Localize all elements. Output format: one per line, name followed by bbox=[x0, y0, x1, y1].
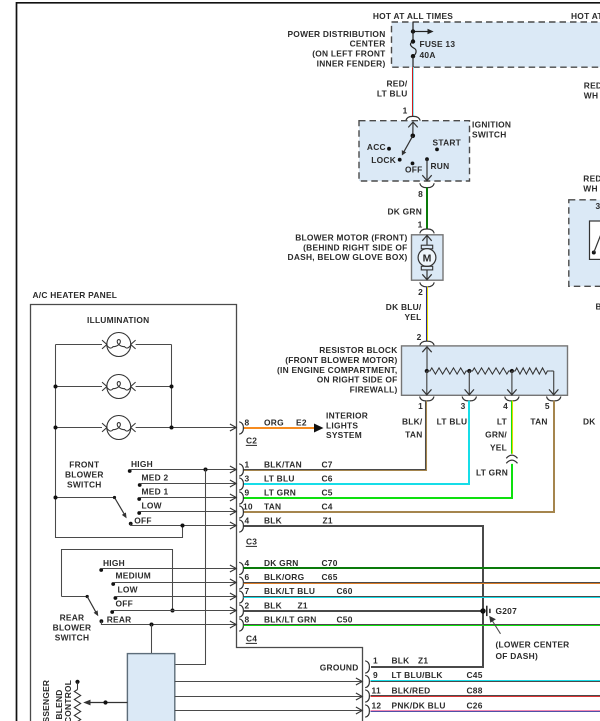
svg-text:BLK/RED: BLK/RED bbox=[392, 685, 431, 695]
wire DK GRN ignition to blower motor bbox=[426, 187, 428, 229]
svg-text:HIGH: HIGH bbox=[103, 558, 125, 568]
contact ACC bbox=[367, 142, 391, 152]
svg-text:BLK: BLK bbox=[392, 656, 410, 666]
svg-text:C65: C65 bbox=[322, 572, 338, 582]
rear switch feed rail bbox=[62, 550, 173, 611]
svg-text:WH: WH bbox=[584, 91, 598, 101]
contact LOCK bbox=[371, 155, 401, 165]
motor terminal arrow down bbox=[422, 270, 431, 280]
svg-text:12: 12 bbox=[372, 700, 382, 710]
svg-text:11: 11 bbox=[372, 685, 381, 695]
svg-text:INTERIOR: INTERIOR bbox=[326, 411, 368, 421]
svg-text:Z1: Z1 bbox=[418, 656, 428, 666]
svg-text:1: 1 bbox=[373, 656, 378, 666]
connector C2 label bbox=[246, 436, 257, 446]
wire label BLK/TAN pin1 bbox=[402, 417, 423, 440]
motor brush top bbox=[421, 245, 432, 249]
svg-text:SWITCH: SWITCH bbox=[472, 130, 507, 140]
ground connector pin labels bbox=[372, 656, 483, 711]
rear blower switch label bbox=[53, 612, 92, 642]
svg-text:BLK/ORG: BLK/ORG bbox=[264, 572, 304, 582]
fuse F13 label bbox=[420, 39, 456, 60]
svg-text:PASSENGER: PASSENGER bbox=[41, 680, 51, 721]
relay switch contact bbox=[592, 233, 600, 255]
svg-text:TAN: TAN bbox=[530, 417, 547, 427]
connector C3 label bbox=[246, 537, 257, 547]
arrows into C3 pins bbox=[230, 466, 236, 529]
svg-text:1: 1 bbox=[418, 401, 423, 411]
ground location callout bbox=[489, 616, 569, 661]
svg-text:(LOWER CENTER: (LOWER CENTER bbox=[496, 639, 570, 649]
relay inner switch box bbox=[590, 221, 600, 259]
passenger blend control label bbox=[41, 680, 73, 721]
arrow into C2 pin8 bbox=[230, 424, 236, 431]
contact START bbox=[433, 137, 462, 151]
svg-text:LT GRN: LT GRN bbox=[264, 487, 296, 497]
svg-text:FRONT: FRONT bbox=[69, 459, 100, 469]
svg-text:Z1: Z1 bbox=[298, 600, 308, 610]
resistor output arrow pin 1 bbox=[422, 371, 431, 395]
fuse F13 element bbox=[410, 39, 416, 67]
svg-text:INNER FENDER): INNER FENDER) bbox=[317, 58, 386, 68]
svg-text:DK GRN: DK GRN bbox=[264, 558, 299, 568]
svg-text:3: 3 bbox=[461, 401, 466, 411]
connector arc at resistor pin 2 bbox=[420, 341, 434, 345]
connector arc at motor pin 2 bbox=[420, 282, 434, 286]
svg-text:HOT AT ALL TIMES: HOT AT ALL TIMES bbox=[373, 11, 453, 21]
wire fuse feed bbox=[412, 22, 414, 42]
svg-text:CONTROL: CONTROL bbox=[63, 680, 73, 721]
front switch pivot feed wire bbox=[56, 497, 115, 499]
svg-text:1: 1 bbox=[418, 220, 423, 230]
svg-text:ORG: ORG bbox=[264, 417, 284, 427]
svg-text:DASH, BELOW GLOVE BOX): DASH, BELOW GLOVE BOX) bbox=[288, 252, 408, 262]
svg-text:HIGH: HIGH bbox=[131, 459, 153, 469]
wire BLK/LT GRN C50 bbox=[244, 625, 600, 626]
front switch contact MED 2 bbox=[138, 472, 236, 487]
svg-text:8: 8 bbox=[245, 417, 250, 427]
svg-text:ILLUMINATION: ILLUMINATION bbox=[87, 315, 149, 325]
svg-text:9: 9 bbox=[373, 670, 378, 680]
svg-text:C70: C70 bbox=[322, 558, 338, 568]
svg-text:DK BLU/: DK BLU/ bbox=[386, 302, 422, 312]
svg-text:LT BLU: LT BLU bbox=[377, 89, 408, 99]
svg-text:LT: LT bbox=[497, 417, 508, 427]
wire PNK/DK BLU C26 bbox=[371, 711, 600, 712]
relay box right edge clipped bbox=[569, 200, 600, 286]
resistor R1 bbox=[427, 368, 470, 374]
svg-text:LT BLU: LT BLU bbox=[437, 417, 468, 427]
ignition switch box U1 bbox=[359, 121, 470, 181]
svg-text:RED/: RED/ bbox=[386, 79, 407, 89]
wire LT BLU/BLK C45 bbox=[371, 681, 600, 682]
wire TAN resistor to C3 pin10 bbox=[244, 401, 555, 512]
connector arcs ground connector bbox=[365, 661, 369, 717]
svg-text:SYSTEM: SYSTEM bbox=[326, 430, 362, 440]
motor terminal arrow up bbox=[422, 235, 431, 245]
blower motor M1 box bbox=[412, 235, 444, 280]
svg-text:8: 8 bbox=[418, 189, 423, 199]
svg-text:3: 3 bbox=[245, 473, 250, 483]
svg-text:(ON LEFT FRONT: (ON LEFT FRONT bbox=[312, 49, 386, 59]
svg-text:C2: C2 bbox=[246, 436, 257, 446]
power distribution center box bbox=[392, 22, 600, 67]
front switch contact HIGH bbox=[128, 459, 236, 473]
svg-text:C26: C26 bbox=[467, 700, 483, 710]
svg-text:4: 4 bbox=[245, 558, 250, 568]
svg-text:C88: C88 bbox=[467, 685, 483, 695]
resistor pin labels 1 3 4 5 bbox=[418, 401, 550, 411]
svg-text:G207: G207 bbox=[496, 606, 518, 616]
svg-text:BLOWER MOTOR (FRONT): BLOWER MOTOR (FRONT) bbox=[295, 233, 407, 243]
node HIGH tap junction bbox=[204, 468, 208, 472]
resistor R3 bbox=[512, 368, 551, 374]
front switch contact MED 1 bbox=[137, 486, 236, 501]
svg-text:TAN: TAN bbox=[264, 501, 281, 511]
node resistor junction B bbox=[467, 369, 471, 373]
svg-text:REAR: REAR bbox=[107, 614, 132, 624]
node OFF ground loop junction bbox=[181, 524, 185, 528]
svg-text:(BEHIND RIGHT SIDE OF: (BEHIND RIGHT SIDE OF bbox=[303, 242, 407, 252]
lamp L2 bbox=[102, 375, 136, 399]
svg-text:LOCK: LOCK bbox=[371, 155, 396, 165]
svg-text:IGNITION: IGNITION bbox=[472, 120, 511, 130]
connector arcs C4 bbox=[239, 562, 243, 631]
lamp row 2 wires bbox=[56, 386, 172, 388]
svg-text:BLK/LT GRN: BLK/LT GRN bbox=[264, 614, 317, 624]
svg-text:POWER DISTRIBUTION: POWER DISTRIBUTION bbox=[287, 29, 385, 39]
svg-text:OFF: OFF bbox=[405, 165, 423, 175]
svg-text:BLK: BLK bbox=[264, 600, 282, 610]
svg-text:TAN: TAN bbox=[405, 430, 422, 440]
rear switch lever bbox=[86, 595, 99, 616]
svg-text:C4: C4 bbox=[322, 501, 333, 511]
svg-text:(IN ENGINE COMPARTMENT,: (IN ENGINE COMPARTMENT, bbox=[277, 365, 398, 375]
svg-text:C50: C50 bbox=[337, 614, 353, 624]
illumination right bus wire bbox=[171, 345, 173, 428]
wire label ORG E2 bbox=[264, 417, 307, 427]
connector C4 label bbox=[246, 634, 257, 644]
connector arcs below resistor block bbox=[420, 397, 561, 401]
front switch lever bbox=[113, 496, 127, 519]
svg-text:SWITCH: SWITCH bbox=[67, 479, 102, 489]
svg-text:RED: RED bbox=[583, 174, 600, 184]
svg-text:C3: C3 bbox=[246, 537, 257, 547]
svg-text:7: 7 bbox=[245, 586, 250, 596]
node rear rail OFF junction bbox=[171, 609, 175, 613]
rear switch pivot feed bbox=[62, 596, 88, 598]
svg-text:10: 10 bbox=[243, 501, 253, 511]
wire label RED/WHT upper clipped bbox=[584, 81, 600, 101]
wire BLK/RED C88 bbox=[371, 696, 600, 697]
svg-text:PNK/DK BLU: PNK/DK BLU bbox=[392, 700, 446, 710]
blend door actuator box bbox=[127, 654, 174, 721]
front switch contact LOW bbox=[137, 500, 236, 515]
svg-text:BLK/LT BLU: BLK/LT BLU bbox=[264, 586, 315, 596]
svg-text:BLK/TAN: BLK/TAN bbox=[264, 459, 302, 469]
node left bus lamp2 junction bbox=[54, 385, 58, 389]
ignition switch label bbox=[472, 120, 511, 140]
svg-text:LOW: LOW bbox=[118, 584, 138, 594]
svg-text:M: M bbox=[423, 252, 432, 264]
node left bus lamp3 junction bbox=[54, 426, 58, 430]
arrow to interior lights system bbox=[314, 424, 324, 433]
node right bus lamp3 junction bbox=[170, 426, 174, 430]
contact OFF bbox=[405, 162, 423, 175]
wire LT GRN/YEL upper segment bbox=[512, 401, 513, 454]
svg-text:BLOWER: BLOWER bbox=[65, 469, 104, 479]
svg-text:6: 6 bbox=[245, 572, 250, 582]
svg-text:OF DASH): OF DASH) bbox=[496, 651, 538, 661]
rear switch contact HIGH bbox=[99, 558, 236, 572]
svg-text:LIGHTS: LIGHTS bbox=[326, 420, 358, 430]
node right bus lamp2 junction bbox=[170, 385, 174, 389]
wire label RED/LT BLU bbox=[377, 79, 408, 99]
blend control potentiometer R4 bbox=[74, 680, 80, 721]
resistor terminal arrow pin 2 bbox=[422, 347, 431, 371]
illumination left bus wire bbox=[56, 345, 183, 538]
wires actuator to ground connector bbox=[175, 682, 362, 711]
wire DK BLU/YEL motor to resistor block bbox=[427, 287, 428, 342]
ignition lever bbox=[402, 136, 413, 156]
svg-text:1: 1 bbox=[403, 106, 408, 116]
svg-text:BLK/: BLK/ bbox=[402, 417, 423, 427]
resistor R2 bbox=[469, 368, 512, 374]
svg-text:Z1: Z1 bbox=[323, 515, 333, 525]
blower motor label bbox=[288, 233, 408, 263]
resistor block label bbox=[277, 345, 398, 394]
svg-text:HOT AT ALL TIMES: HOT AT ALL TIMES bbox=[571, 11, 600, 21]
resistor output arrow pin 5 bbox=[549, 371, 558, 395]
svg-text:2: 2 bbox=[418, 287, 423, 297]
contact RUN bbox=[425, 157, 449, 171]
svg-text:CENTER: CENTER bbox=[350, 39, 386, 49]
svg-text:C6: C6 bbox=[322, 473, 333, 483]
svg-text:GROUND: GROUND bbox=[320, 662, 359, 672]
node pivot feed junction bbox=[54, 496, 58, 500]
svg-text:MEDIUM: MEDIUM bbox=[116, 570, 151, 580]
svg-text:DK: DK bbox=[583, 417, 596, 427]
wire RED/LT BLU fuse to ignition switch bbox=[413, 67, 414, 117]
wire BLK/TAN resistor to C3 pin1 bbox=[244, 401, 427, 471]
ignition terminal arrow pin 1 bbox=[408, 122, 417, 136]
motor armature circle bbox=[418, 249, 436, 267]
svg-text:MED 1: MED 1 bbox=[142, 486, 169, 496]
svg-text:YEL: YEL bbox=[404, 312, 421, 322]
svg-text:BLOWER: BLOWER bbox=[53, 622, 92, 632]
connector arc at motor pin 1 bbox=[420, 229, 434, 233]
ignition terminal arrow pin 8 bbox=[422, 159, 431, 180]
wire label LT GRN/YEL pin4 bbox=[485, 417, 508, 453]
connector arc C2 pin8 bbox=[239, 422, 243, 434]
svg-text:OFF: OFF bbox=[134, 515, 152, 525]
arrows into C4 pins bbox=[230, 565, 236, 628]
svg-text:8: 8 bbox=[245, 614, 250, 624]
svg-text:E2: E2 bbox=[296, 417, 307, 427]
svg-text:OFF: OFF bbox=[116, 599, 134, 609]
wire BLK Z1 front switch to ground network bbox=[244, 526, 484, 667]
svg-text:C60: C60 bbox=[337, 586, 353, 596]
svg-text:C7: C7 bbox=[322, 459, 333, 469]
svg-text:GRN/: GRN/ bbox=[485, 430, 507, 440]
rear switch contact LOW bbox=[114, 584, 237, 599]
node REAR tap junction bbox=[150, 623, 154, 627]
connector arc at ignition pin 8 bbox=[420, 183, 434, 187]
resistor output arrow pin 3 bbox=[465, 371, 474, 395]
C3 pin row labels bbox=[243, 459, 333, 525]
svg-text:RED: RED bbox=[584, 81, 600, 91]
svg-text:C4: C4 bbox=[246, 634, 257, 644]
power distribution center label bbox=[287, 29, 386, 69]
svg-text:C45: C45 bbox=[467, 670, 483, 680]
ignition lever pivot bbox=[411, 134, 416, 139]
svg-text:9: 9 bbox=[245, 487, 250, 497]
svg-text:MED 2: MED 2 bbox=[142, 472, 169, 482]
svg-text:(FRONT BLOWER MOTOR): (FRONT BLOWER MOTOR) bbox=[285, 355, 397, 365]
wire DK GRN C70 bbox=[244, 567, 600, 569]
motor brush bottom bbox=[421, 266, 432, 270]
C4 pin row labels bbox=[245, 558, 353, 625]
svg-text:DK GRN: DK GRN bbox=[387, 207, 422, 217]
svg-text:LT BLU: LT BLU bbox=[264, 473, 295, 483]
resistor output arrow pin 4 bbox=[507, 371, 516, 395]
svg-text:FIREWALL): FIREWALL) bbox=[350, 384, 398, 394]
lamp row 1 wires bbox=[56, 344, 172, 346]
wire label RED/WHT lower clipped bbox=[583, 174, 600, 194]
interior lights system label bbox=[326, 411, 368, 441]
wire BLK/LT BLU C60 bbox=[244, 597, 600, 598]
svg-text:LT BLU/BLK: LT BLU/BLK bbox=[392, 670, 443, 680]
connector arc at ignition pin 1 bbox=[406, 116, 420, 120]
svg-text:LT GRN: LT GRN bbox=[476, 468, 508, 478]
wire label DK BLU/YEL bbox=[386, 302, 422, 322]
front blower switch label bbox=[65, 459, 104, 489]
wire BLK Z1 rear to G207 bbox=[244, 610, 483, 612]
svg-text:RUN: RUN bbox=[431, 161, 450, 171]
svg-text:A/C HEATER PANEL: A/C HEATER PANEL bbox=[33, 290, 118, 300]
svg-text:2: 2 bbox=[417, 332, 422, 342]
svg-text:1: 1 bbox=[245, 459, 250, 469]
wire HIGH tap down to actuator bbox=[175, 470, 206, 665]
connector arcs C3 bbox=[239, 464, 243, 532]
svg-text:FUSE 13: FUSE 13 bbox=[420, 39, 456, 49]
svg-text:SWITCH: SWITCH bbox=[55, 632, 90, 642]
node fuse top junction bbox=[411, 29, 415, 33]
rear switch contact REAR bbox=[100, 614, 237, 624]
svg-text:C5: C5 bbox=[322, 487, 333, 497]
front switch contact OFF bbox=[129, 515, 236, 525]
svg-text:5: 5 bbox=[545, 401, 550, 411]
svg-text:WH: WH bbox=[583, 184, 597, 194]
lamp L1 bbox=[102, 333, 136, 357]
svg-text:ACC: ACC bbox=[367, 142, 386, 152]
wire REAR tap down into actuator bbox=[151, 625, 153, 654]
svg-text:ON RIGHT SIDE OF: ON RIGHT SIDE OF bbox=[317, 375, 398, 385]
svg-text:REAR: REAR bbox=[60, 612, 85, 622]
ground G207 bbox=[480, 606, 517, 616]
wire break splice symbol bbox=[506, 455, 517, 463]
lamp L3 bbox=[102, 416, 136, 440]
svg-text:START: START bbox=[433, 137, 462, 147]
fuse F13 bus tap arrow bbox=[413, 29, 434, 35]
wire LT GRN to C3 pin9 bbox=[244, 464, 513, 498]
svg-text:LOW: LOW bbox=[142, 500, 162, 510]
svg-text:4: 4 bbox=[503, 401, 508, 411]
node wiper junction bbox=[103, 700, 107, 704]
resistor block box bbox=[402, 346, 568, 395]
A/C heater panel box outline bbox=[31, 305, 363, 721]
rear switch contact OFF bbox=[110, 599, 236, 614]
wire BLK/ORG C65 bbox=[244, 583, 600, 584]
node resistor junction A bbox=[425, 369, 429, 373]
wire LT BLU resistor to C3 pin3 bbox=[244, 401, 470, 484]
node resistor junction C bbox=[510, 369, 514, 373]
svg-text:3: 3 bbox=[596, 201, 600, 211]
svg-text:40A: 40A bbox=[420, 50, 436, 60]
svg-text:B: B bbox=[596, 302, 600, 312]
arrows into ground connector bbox=[356, 678, 362, 714]
svg-text:YEL: YEL bbox=[490, 443, 507, 453]
svg-text:BLK: BLK bbox=[264, 515, 282, 525]
svg-text:4: 4 bbox=[245, 515, 250, 525]
lamp row 3 wires bbox=[56, 427, 237, 429]
rear switch contact MEDIUM bbox=[111, 570, 236, 585]
potentiometer wiper arrow bbox=[83, 700, 127, 706]
svg-text:2: 2 bbox=[245, 600, 250, 610]
wire ORG E2 bbox=[244, 427, 315, 429]
svg-text:RESISTOR BLOCK: RESISTOR BLOCK bbox=[319, 345, 397, 355]
